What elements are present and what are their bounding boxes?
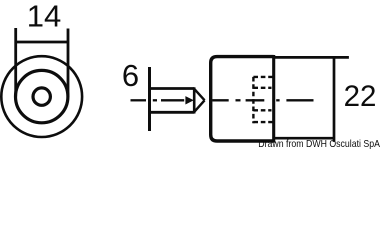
anode body outline (thick, rounded left corners) — [211, 57, 274, 141]
rear section right face — [333, 56, 336, 142]
centerline / leader (dash-dot) — [131, 99, 314, 101]
stud shaft top line — [150, 87, 195, 90]
stud cone base — [193, 87, 196, 113]
hidden thread hole: top inner dashed line — [253, 87, 271, 89]
hidden thread hole: top outer dashed line — [253, 76, 273, 78]
front view inner circle (stud hole) — [33, 88, 50, 105]
anode body right face — [272, 55, 275, 143]
stud shaft bottom line — [150, 111, 195, 114]
rear section bottom line — [274, 137, 334, 140]
svg-text:14: 14 — [27, 0, 61, 33]
right extension line — [67, 29, 70, 97]
rear section top line (with overshoot) — [274, 56, 349, 59]
svg-text:22: 22 — [344, 80, 377, 113]
leader arrowhead pointing at stud end — [185, 96, 193, 104]
hidden thread hole: bottom inner dashed line — [253, 109, 271, 111]
svg-text:6: 6 — [122, 58, 139, 93]
svg-text:Drawn from DWH Osculati SpA: Drawn from DWH Osculati SpA — [258, 138, 380, 150]
stud cone upper diagonal — [194, 89, 204, 101]
dimension line for 14 — [16, 41, 68, 44]
hidden thread hole: bottom outer dashed line — [253, 121, 273, 123]
left extension line — [14, 28, 17, 97]
stud cone lower diagonal — [194, 100, 204, 112]
front view middle circle (14mm barrel) — [16, 70, 68, 122]
hidden thread hole: left end dashed line — [252, 77, 254, 123]
stud head / flange line — [148, 67, 151, 131]
front view outer circle (anode body OD) — [1, 56, 82, 137]
